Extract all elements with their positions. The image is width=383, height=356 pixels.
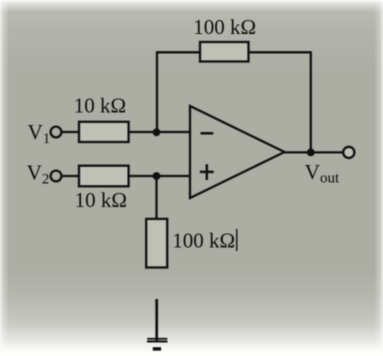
op-amp plus sign <box>200 164 214 180</box>
svg-text:10 kΩ: 10 kΩ <box>75 188 127 212</box>
ground bar 3 <box>153 347 161 351</box>
wire feedback right vertical <box>310 51 312 152</box>
wire node B down to R3 <box>155 176 157 219</box>
svg-text:V1: V1 <box>28 120 51 147</box>
svg-text:100 kΩ: 100 kΩ <box>172 229 235 253</box>
terminal V1 <box>51 127 62 138</box>
resistor R1 10k <box>79 122 129 142</box>
wire feedback top horizontal <box>157 51 311 53</box>
wire R2 to op-amp non-inverting input <box>129 175 190 177</box>
node B junction dot (non-inverting input) <box>153 172 161 180</box>
svg-text:Vout: Vout <box>305 160 340 187</box>
node OUT junction dot <box>307 149 315 157</box>
wire op-amp output <box>285 151 344 153</box>
text cursor bar <box>236 229 238 251</box>
terminal Vout <box>343 147 354 158</box>
ground bar 2 <box>147 341 168 343</box>
ground stem wire <box>155 299 158 342</box>
svg-text:100 kΩ: 100 kΩ <box>193 15 256 39</box>
resistor R2 10k <box>79 166 129 187</box>
svg-text:10 kΩ: 10 kΩ <box>74 93 126 117</box>
node A junction dot (inverting input) <box>153 128 161 136</box>
wire V2 input <box>62 175 80 177</box>
resistor R3 100k (vertical) <box>146 219 167 268</box>
svg-text:V2: V2 <box>27 160 50 187</box>
wire V1 input <box>62 131 80 133</box>
wire R1 to op-amp inverting input <box>129 131 190 133</box>
ground bar 1 <box>147 338 167 340</box>
terminal V2 <box>51 171 62 182</box>
op-amp U1 triangle <box>190 106 285 198</box>
wire feedback left vertical <box>156 51 158 133</box>
resistor RF 100k (top feedback) <box>200 42 249 62</box>
op-amp minus sign <box>201 132 214 135</box>
